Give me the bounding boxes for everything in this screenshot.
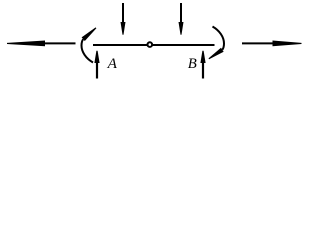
beam member (horizontal bar) [93, 44, 215, 46]
hinge pin (circle at beam midpoint) [148, 42, 153, 47]
clockwise moment arc at left end [82, 27, 97, 62]
right horizontal force arrow (pointing right) [242, 41, 302, 47]
svg-text:B: B [188, 56, 197, 72]
left horizontal force arrow (pointing left) [7, 41, 76, 47]
downward force arrow (right of hinge) [179, 3, 184, 35]
clockwise moment arc at right end [208, 27, 224, 60]
upward reaction arrow at B [200, 51, 205, 79]
upward reaction arrow at A [94, 51, 99, 79]
downward force arrow (left of hinge) [121, 3, 126, 35]
svg-text:A: A [107, 55, 118, 72]
